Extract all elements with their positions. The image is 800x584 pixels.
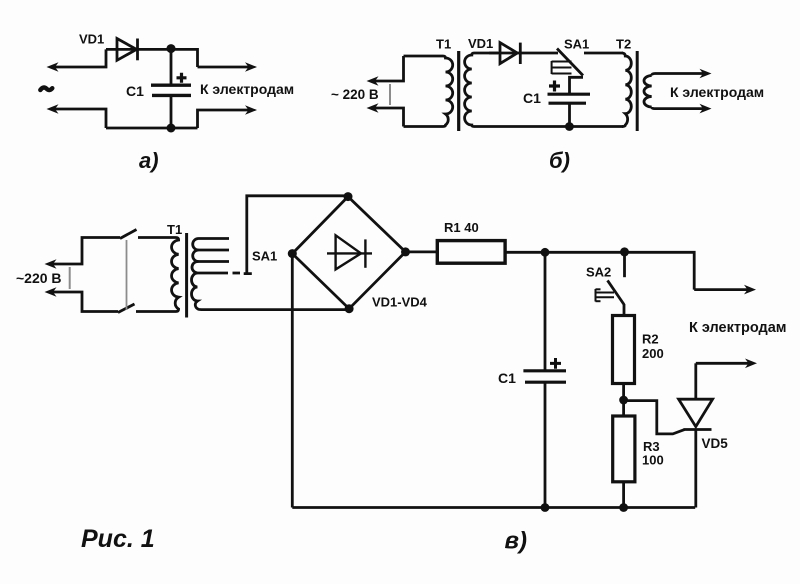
wire input bottom-left (a) with arrow xyxy=(47,104,107,128)
svg-text:VD1: VD1 xyxy=(468,36,493,51)
svg-text:C1: C1 xyxy=(498,370,516,386)
switch contact bottom (v) xyxy=(118,304,135,313)
capacitor C1 (b) xyxy=(548,94,591,126)
wire SA2 to R2 (v) xyxy=(623,304,626,316)
wire switch to T1 primary top (v) xyxy=(138,236,176,239)
wire gate from node to VD5 (v) xyxy=(624,401,685,434)
resistor R2 (v) xyxy=(613,316,635,384)
node junction SA2 top (v) xyxy=(620,247,629,256)
transformer T1 primary (b) xyxy=(404,56,453,127)
svg-text:Рис. 1: Рис. 1 xyxy=(81,525,155,553)
thyristor VD5 (v) xyxy=(679,363,713,507)
node junction C1 top (v) xyxy=(541,248,550,257)
resistor R3 (v) xyxy=(613,416,635,482)
diode VD1 (a) xyxy=(106,39,171,61)
transformer T2 core (b) xyxy=(636,51,639,131)
svg-text:б): б) xyxy=(549,148,570,173)
switch linkage dashed line (v) xyxy=(126,240,128,310)
wire output bottom (b) with arrow xyxy=(652,104,712,114)
svg-text:SA1: SA1 xyxy=(252,249,277,264)
wire bottom rail (a) xyxy=(106,127,198,130)
wire SA1 to T2 top rail (b) xyxy=(584,52,623,55)
node junction top (a) xyxy=(167,44,176,53)
node bridge right corner (v) xyxy=(401,247,410,256)
label + polarity (v) xyxy=(550,358,561,369)
node junction bottom (b) xyxy=(565,122,574,131)
svg-text:100: 100 xyxy=(642,453,664,468)
wire output top (b) with arrow xyxy=(652,69,712,79)
transformer T1 primary (v) xyxy=(172,238,179,312)
svg-text:VD1-VD4: VD1-VD4 xyxy=(372,295,428,310)
switch SA1 (b) arm xyxy=(557,49,583,76)
svg-text:VD1: VD1 xyxy=(79,32,104,47)
node junction rail C1 (v) xyxy=(541,503,550,512)
switch SA2 stub (v) xyxy=(623,252,626,277)
switch SA1 gap dash (v) xyxy=(233,272,241,275)
wire R2 bottom to node (v) xyxy=(622,384,625,417)
transformer T1 secondary (b) xyxy=(465,53,623,127)
wire input top-left (a) with arrow xyxy=(47,49,107,71)
wire bridge right corner to R1 (v) xyxy=(406,250,438,253)
node junction rail R3 (v) xyxy=(619,503,628,512)
node junction bottom (a) xyxy=(167,124,176,133)
label + polarity (b) xyxy=(549,81,560,92)
transformer T2 secondary (b) xyxy=(644,76,652,108)
diode VD1 (b) xyxy=(489,43,558,64)
transformer T2 primary (b) xyxy=(622,53,631,127)
transformer T1 core (b) xyxy=(457,51,460,131)
wire top to right step (a) xyxy=(171,49,198,67)
svg-text:VD5: VD5 xyxy=(702,436,729,451)
wire output bottom-right (a) with arrow xyxy=(198,105,258,128)
svg-text:SA2: SA2 xyxy=(586,265,611,280)
wire R1 to output corner (v) xyxy=(505,252,694,289)
wire SA1 stub and riser to bridge (v) xyxy=(244,196,345,274)
transformer T1 core (v) xyxy=(185,233,188,318)
wire bottom rail (v) xyxy=(292,506,695,509)
switch contact top (v) xyxy=(120,230,137,239)
switch SA1 (b) contact comb xyxy=(552,61,572,74)
plug link line (b) xyxy=(389,84,391,105)
wire SA1 arm to capacitor (b) xyxy=(570,77,584,93)
bridge inner diode symbol (v) xyxy=(327,235,372,269)
svg-text:SA1: SA1 xyxy=(564,37,589,52)
svg-text:T1: T1 xyxy=(167,222,182,237)
wire output top-right (a) with arrow xyxy=(198,62,258,72)
node bridge top corner (v) xyxy=(344,192,353,201)
switch SA2 arm (v) xyxy=(608,280,625,304)
capacitor C1 (a) xyxy=(151,49,191,128)
wire input bottom (b) with arrow xyxy=(367,103,404,126)
svg-text:а): а) xyxy=(139,148,159,173)
capacitor C1 (v) xyxy=(523,252,566,507)
svg-text:R1 40: R1 40 xyxy=(444,220,479,235)
svg-text:К электродам: К электродам xyxy=(670,84,764,100)
node bridge left corner (v) xyxy=(288,249,297,258)
node junction R2-R3 (v) xyxy=(619,396,628,405)
svg-text:К электродам: К электродам xyxy=(200,81,294,97)
svg-text:T1: T1 xyxy=(436,37,451,52)
wire input top (b) with arrow xyxy=(367,56,404,86)
svg-text:~220 В: ~220 В xyxy=(16,270,62,286)
switch SA2 contact comb (v) xyxy=(596,289,615,302)
svg-text:~ 220 В: ~ 220 В xyxy=(331,87,379,102)
wire bridge left corner down to bottom rail (v) xyxy=(291,254,294,508)
resistor R1 (v) xyxy=(437,241,505,264)
bridge rectifier VD1-VD4 diamond (v) xyxy=(292,197,405,309)
svg-text:R2: R2 xyxy=(642,332,659,347)
wire input bottom (v) with arrow xyxy=(45,287,119,311)
wire switch to T1 primary bottom (v) xyxy=(136,310,176,313)
svg-text:К электродам: К электродам xyxy=(689,320,787,336)
wire input top (v) with arrow xyxy=(45,238,121,269)
svg-text:T2: T2 xyxy=(616,37,631,52)
svg-text:C1: C1 xyxy=(126,83,144,99)
label + polarity (a) xyxy=(177,73,187,83)
transformer T1 secondary winding (v) xyxy=(192,239,347,310)
wire output top arrow (v) xyxy=(694,285,756,295)
svg-text:в): в) xyxy=(505,528,528,555)
wire R3 bottom to rail (v) xyxy=(622,482,625,508)
svg-text:С1: С1 xyxy=(523,90,541,106)
plug link line (v) xyxy=(69,267,71,289)
node bridge bottom corner (v) xyxy=(345,304,354,313)
node ~ AC symbol (a) xyxy=(40,88,52,91)
svg-text:200: 200 xyxy=(642,346,664,361)
wire output bottom arrow (v) xyxy=(696,359,757,369)
